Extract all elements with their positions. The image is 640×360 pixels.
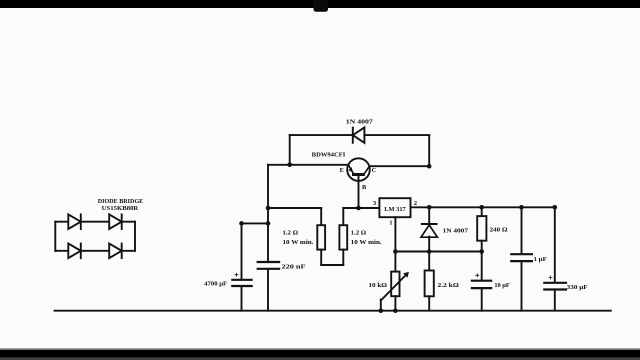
wire 240 bottom lead to adj (481, 241, 483, 252)
wire bridge top row (55, 221, 135, 223)
diode D5 1N 4007 (top protection diode) (346, 118, 374, 143)
wire 4700uF link horizontal (242, 222, 269, 224)
wire bridge bottom row (55, 250, 135, 252)
svg-text:US15KB80R: US15KB80R (102, 205, 139, 212)
resistor R1 1.2 ohm 10 W min. (283, 225, 326, 249)
svg-text:1 μF: 1 μF (534, 256, 547, 263)
wire top diode horizontal (290, 134, 353, 136)
wire R2 top lead (342, 208, 344, 225)
transistor Q1 BDW94CFI (312, 152, 377, 191)
node input rail top (266, 206, 271, 211)
node adj-d6 (427, 249, 432, 254)
wire 240 top lead (481, 207, 483, 216)
svg-text:2: 2 (414, 200, 417, 207)
diode bridge label (98, 198, 144, 212)
diode D3 (bridge bottom-left) (68, 244, 81, 259)
svg-text:10 μF: 10 μF (494, 282, 509, 289)
svg-text:1N 4007: 1N 4007 (346, 118, 374, 125)
wire pot bottom lead (394, 296, 396, 311)
svg-text:10 kΩ: 10 kΩ (369, 282, 388, 289)
wire adj horizontal (395, 251, 481, 253)
svg-text:4700 μF: 4700 μF (204, 281, 227, 288)
node out-240 (479, 205, 484, 210)
wire bridge left rail (54, 222, 56, 251)
node out-d6 (427, 205, 432, 210)
wire R1 bottom lead (320, 250, 322, 265)
node junction dots (239, 163, 557, 314)
svg-text:C: C (372, 167, 377, 174)
bottom letterbox bar (0, 350, 640, 358)
capacitor C3 1 uF (511, 254, 547, 263)
diode D4 (bridge bottom-right) (109, 244, 122, 259)
node out-1uF (519, 205, 524, 210)
svg-text:1.2 Ω: 1.2 Ω (283, 230, 299, 237)
wire LM317 output (411, 206, 555, 208)
node base junction (356, 206, 361, 211)
node rail-pot (393, 308, 398, 313)
op-amp U1 LM 317 regulator box (373, 198, 417, 226)
node 4700uF link left (239, 221, 244, 226)
wire bridge right rail (134, 222, 136, 251)
wire diode D6 to 2.2k (428, 237, 430, 271)
wire pot wiper drop (380, 300, 382, 311)
node emitter-diode junction (287, 163, 292, 168)
svg-text:330 μF: 330 μF (567, 284, 588, 291)
wire ground rail (55, 310, 611, 312)
wire 10uF bottom lead (481, 289, 483, 311)
svg-text:E: E (340, 167, 344, 174)
wire 220nF bottom lead (267, 270, 269, 311)
diode D6 1N 4007 (adj protection) (421, 224, 469, 237)
diode D1 (bridge top-left) (68, 214, 81, 229)
capacitor C5 220 nF (258, 262, 306, 271)
resistor R2 1.2 ohm 10 W min. (339, 225, 382, 249)
wire collector horizontal (369, 165, 429, 167)
wire base vertical (358, 176, 360, 208)
svg-text:DIODE BRIDGE: DIODE BRIDGE (98, 198, 144, 205)
wire 4700uF top lead (241, 223, 243, 278)
svg-text:10 W min.: 10 W min. (351, 239, 382, 246)
wire input to R1 (268, 207, 321, 209)
node out-330uF (553, 205, 558, 210)
resistor R4 240 ohm (477, 216, 507, 241)
wire 1uF bottom lead (521, 262, 523, 311)
capacitor C1 4700 uF polarized (204, 273, 251, 288)
wire R2 bottom lead (342, 250, 344, 265)
wire 2.2k bottom lead (428, 296, 430, 310)
svg-text:10 W min.: 10 W min. (283, 239, 314, 246)
svg-text:1.2 Ω: 1.2 Ω (351, 230, 367, 237)
wire input rail vertical (267, 165, 269, 261)
wire pot top lead (394, 252, 396, 272)
svg-text:3: 3 (373, 200, 376, 207)
wire top diode left drop (289, 135, 291, 165)
node adj-10uF (479, 249, 484, 254)
wire R1-R2 bottom U link (321, 264, 343, 266)
node 4700uF link right (266, 221, 271, 226)
node rail-wiper (379, 308, 384, 313)
svg-text:240 Ω: 240 Ω (490, 226, 508, 233)
top letterbox bar (0, 0, 640, 8)
wire 330uF top lead (554, 207, 556, 281)
node collector-diode junction (427, 164, 432, 169)
svg-text:1N 4007: 1N 4007 (443, 228, 469, 235)
svg-text:LM 317: LM 317 (384, 206, 406, 213)
diode D2 (bridge top-right) (109, 214, 122, 229)
wire LM317 adj pin1 vertical (394, 217, 396, 251)
potentiometer RV1 10 k (369, 272, 409, 301)
capacitor C2 10 uF polarized (472, 274, 510, 289)
capacitor C4 330 uF polarized (544, 276, 587, 291)
node adj-pot (393, 249, 398, 254)
wire 4700uF bottom lead (241, 287, 243, 311)
wire R2 to LM317 pin3 (343, 207, 379, 209)
top center notch tab (314, 0, 329, 12)
svg-text:220 nF: 220 nF (282, 264, 306, 271)
wire R1 top lead (320, 208, 322, 225)
bottom player bar faint line (0, 348, 640, 349)
wire 330uF bottom lead (554, 291, 556, 311)
wire diode D6 top lead (428, 207, 430, 224)
wire top diode right drop (428, 135, 430, 166)
wire adj to 10uF (481, 252, 483, 280)
wire emitter horizontal (268, 164, 348, 166)
svg-text:1: 1 (389, 219, 392, 226)
wire 1uF top lead (521, 207, 523, 253)
resistor R3 2.2 kohm (425, 271, 459, 297)
svg-text:2.2 kΩ: 2.2 kΩ (438, 282, 459, 289)
svg-text:BDW94CFI: BDW94CFI (312, 152, 346, 159)
